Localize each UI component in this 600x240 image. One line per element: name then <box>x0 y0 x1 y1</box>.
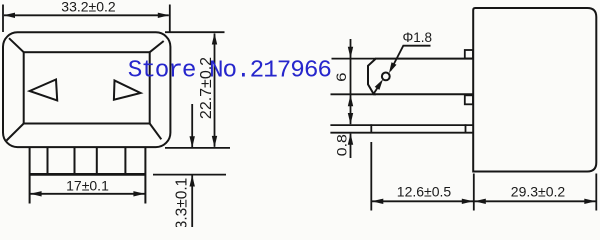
pin block divider 2 <box>47 147 49 175</box>
dimension 6 upper arrowhead <box>348 47 353 59</box>
dimension 12.6±0.5 line <box>372 200 473 202</box>
dimension 29.3±0.2 right extension line <box>595 174 597 211</box>
svg-text:6: 6 <box>333 72 349 82</box>
dimension 22.7±0.2 bottom extension line (housing bottom) <box>165 147 230 149</box>
hole leader arrowhead <box>389 62 397 73</box>
relay body outline (side view) <box>473 8 596 172</box>
dimension 33.2±0.2 left arrowhead <box>4 13 16 18</box>
dimension 12.6±0.5 left arrowhead <box>372 199 384 204</box>
dimension 0.8 lower arrow line <box>350 134 352 158</box>
corner chamfer line top-left <box>9 38 24 52</box>
thin bottom pin top edge <box>330 124 473 126</box>
thin pin bend divider <box>370 124 372 133</box>
dimension 12.6±0.5 extension line <box>370 142 372 211</box>
pin hole circle <box>382 73 390 81</box>
corner chamfer line bottom-right <box>150 124 162 140</box>
dimension 0.8 middle down arrowhead <box>348 113 353 125</box>
dimension 3.3±0.1 lower arrowhead <box>190 175 195 187</box>
right arrow triangle on rocker <box>114 81 141 100</box>
dimension 17±0.1 left arrowhead <box>30 191 41 196</box>
dimension 33.2±0.2 right arrowhead <box>158 13 170 18</box>
top blade pin outline <box>368 59 473 95</box>
pin block divider 5 <box>124 147 126 175</box>
dimension 6 upper arrow line <box>350 39 352 94</box>
left arrow triangle on rocker <box>30 80 58 101</box>
dimension 0.8 lower arrowhead <box>348 133 353 145</box>
dimension 22.7±0.2 top extension line <box>165 31 225 33</box>
svg-text:33.2±0.2: 33.2±0.2 <box>61 0 116 15</box>
svg-text:3.3±0.1: 3.3±0.1 <box>173 178 190 227</box>
dimension 22.7±0.2 top arrowhead <box>212 33 217 45</box>
svg-text:17±0.1: 17±0.1 <box>66 178 109 194</box>
dimension 6 middle up arrowhead <box>348 95 353 107</box>
corner chamfer line bottom-left <box>7 124 24 141</box>
svg-text:Store No.217966: Store No.217966 <box>128 57 332 84</box>
dimension 29.3±0.2 right arrowhead <box>584 199 596 204</box>
dimension 3.3±0.1 upper arrow line <box>191 104 193 147</box>
dimension 33.2±0.2 line <box>4 14 169 16</box>
dimension 29.3±0.2 left arrowhead <box>474 199 486 204</box>
dimension 3.3±0.1 lower arrow line <box>191 175 193 227</box>
hole leader line <box>391 46 431 71</box>
pin block divider 4 <box>96 147 98 175</box>
dimension 6 bottom extension line <box>331 93 377 95</box>
hole lower arrowhead <box>375 79 383 90</box>
dimension 22.7±0.2 bottom arrowhead <box>212 136 217 148</box>
pin block divider 6 <box>144 147 146 204</box>
dimension 33.2±0.2 extension line right <box>169 5 171 33</box>
svg-text:Φ1.8: Φ1.8 <box>403 30 433 45</box>
svg-text:12.6±0.5: 12.6±0.5 <box>397 183 452 199</box>
hole lower arrow line <box>374 85 380 94</box>
dimension 17±0.1 line <box>30 193 144 195</box>
pin boss upper <box>465 50 473 59</box>
dimension 33.2±0.2 extension line left <box>2 5 4 33</box>
dimension 29.3±0.2 line <box>475 200 596 202</box>
switch rocker inner rectangle <box>24 52 150 123</box>
dimension 12.6±0.5 right arrowhead <box>462 199 474 204</box>
thin pin root divider <box>465 124 467 133</box>
svg-text:0.8: 0.8 <box>333 134 349 156</box>
dimension 6 top extension line <box>332 58 377 60</box>
dimension 3.3±0.1 upper arrowhead <box>190 136 195 148</box>
dimension 6/0.8 middle arrow line <box>350 95 352 124</box>
pin block divider 1 <box>29 147 31 204</box>
svg-text:29.3±0.2: 29.3±0.2 <box>511 183 566 199</box>
dimension 3.3±0.1 rail extension line <box>153 174 226 176</box>
pin boss lower <box>465 95 473 104</box>
switch housing outer outline (top view) <box>3 32 170 147</box>
dimension 22.7±0.2 line <box>214 34 216 147</box>
dimension 17±0.1 right arrowhead <box>133 191 145 196</box>
body left extension line <box>473 174 475 211</box>
thin bottom pin bottom edge <box>330 132 473 134</box>
pin block divider 3 <box>74 147 76 175</box>
corner chamfer line top-right <box>150 41 164 52</box>
pin block bottom rail <box>29 173 146 176</box>
